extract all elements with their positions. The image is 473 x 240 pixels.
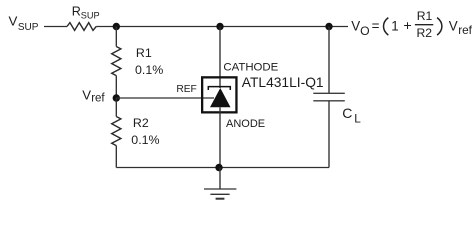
wire VO/CL node down to CL (328, 27, 330, 94)
svg-text:SUP: SUP (81, 10, 100, 20)
svg-text:0.1%: 0.1% (135, 63, 163, 77)
svg-text:ref: ref (458, 23, 472, 37)
wire cathode (top rail to U1) (219, 27, 221, 89)
svg-text:CATHODE: CATHODE (223, 61, 278, 73)
wire ground stem (219, 168, 221, 190)
label RSUP (72, 5, 100, 21)
svg-text:R2: R2 (133, 116, 149, 130)
svg-text:V: V (9, 13, 18, 28)
svg-text:0.1%: 0.1% (131, 133, 159, 147)
svg-text:R: R (72, 5, 81, 19)
junction dot anode/bottom rail (215, 164, 222, 171)
ground (204, 189, 236, 199)
svg-text:REF: REF (176, 84, 196, 95)
junction dot cathode top (216, 23, 223, 30)
svg-text:1: 1 (391, 18, 398, 33)
node VSUP label (9, 13, 39, 33)
U1 cathode bar with hooks (208, 87, 230, 90)
resistor RSUP (67, 23, 96, 31)
node VO formula label (351, 9, 472, 40)
svg-text:L: L (354, 111, 361, 125)
svg-text:V: V (449, 18, 458, 33)
op-amp U1 ATL431LI-Q1 body box (202, 77, 236, 112)
resistor R1 (112, 47, 121, 76)
wire CL to bottom rail (328, 101, 330, 168)
svg-text:ATL431LI-Q1: ATL431LI-Q1 (242, 75, 324, 90)
wire REF (Vref to box) (116, 97, 214, 99)
svg-text:O: O (360, 24, 369, 38)
U1 triangle (210, 88, 231, 107)
wire RSUP to top-right rail (96, 26, 348, 28)
svg-text:ANODE: ANODE (226, 118, 265, 130)
svg-text:R2: R2 (417, 26, 433, 40)
wire bottom rail (116, 167, 329, 169)
svg-text:=: = (372, 18, 380, 33)
svg-text:C: C (342, 105, 352, 121)
wire R1 to Vref node (115, 76, 117, 98)
wire anode (U1 to bottom rail) (219, 107, 221, 167)
wire VSUP to RSUP (44, 26, 67, 28)
node Vref label (82, 88, 105, 105)
svg-text:SUP: SUP (18, 22, 39, 33)
svg-text:+: + (403, 18, 411, 34)
junction dot Vref (113, 94, 120, 101)
label CL (342, 105, 361, 125)
svg-text:R1: R1 (136, 46, 152, 60)
resistor R2 (112, 117, 121, 146)
wire R2 to bottom rail (115, 146, 117, 168)
svg-text:R1: R1 (417, 9, 433, 23)
capacitor CL (313, 93, 345, 101)
junction dot VO/CL (325, 23, 332, 30)
junction dot node A (RSUP/R1) (113, 23, 120, 30)
svg-text:V: V (82, 88, 91, 103)
svg-text:ref: ref (91, 92, 105, 104)
wire node A down to R1 (115, 27, 117, 47)
wire Vref down to R2 (115, 98, 117, 117)
svg-text:V: V (351, 18, 360, 33)
